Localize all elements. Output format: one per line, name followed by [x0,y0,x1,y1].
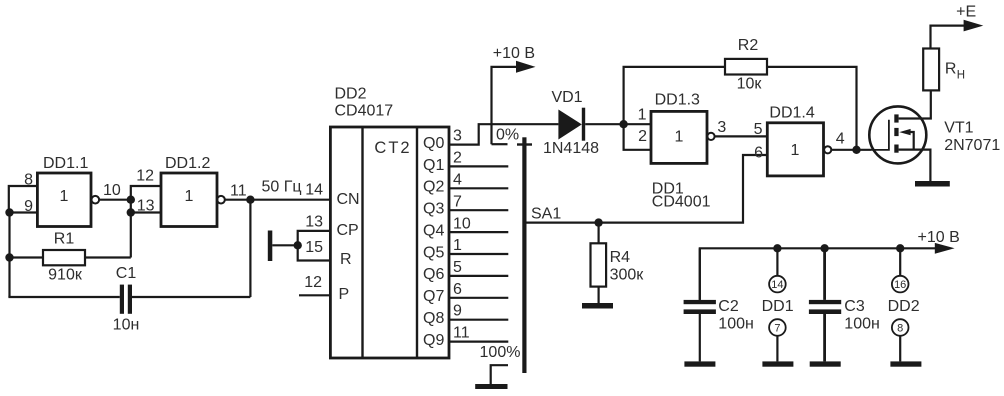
wire: Q4 tap [449,231,508,233]
svg-text:1N4148: 1N4148 [543,140,599,157]
svg-text:9: 9 [24,198,33,215]
wire: pin 2 wrap [624,124,651,150]
wire: DD1.1 input tie (pins 8,9) [9,186,38,213]
svg-text:1: 1 [185,188,194,205]
svg-text:VD1: VD1 [551,89,582,106]
svg-text:R: R [340,251,352,268]
svg-text:1: 1 [60,188,69,205]
svg-text:1: 1 [791,142,800,159]
wire: Q2 tap [449,187,508,189]
svg-text:14: 14 [771,279,783,291]
svg-text:15: 15 [305,239,323,256]
svg-text:9: 9 [453,303,462,320]
node: rail junction C3 [820,244,828,252]
svg-text:CN: CN [337,191,360,208]
wire: Q7 tap [449,297,508,299]
op-amp: logic gate DD1.1 [37,155,99,227]
diode VD1 [543,89,624,157]
svg-text:+E: +E [956,3,976,20]
node: CP/R junction [294,241,302,249]
svg-text:C2: C2 [718,298,739,315]
switch SA1 top tick [517,143,532,145]
power +E arrow [931,3,984,48]
wire: Q1 tap [449,165,508,167]
svg-text:8: 8 [24,172,33,189]
svg-text:Q4: Q4 [423,223,444,240]
wire: CP/R tie to ground [272,231,330,261]
power rail +10 V (bottom) [700,229,960,300]
svg-text:7: 7 [453,194,462,211]
svg-text:DD1.2: DD1.2 [165,155,210,172]
svg-text:300к: 300к [610,267,645,284]
svg-text:910к: 910к [48,267,83,284]
resistor R2 feedback [624,37,857,150]
wire: C1 right vertical up to output node [249,200,251,297]
counter U-DD2 CD4017 [330,86,449,358]
svg-text:12: 12 [136,168,154,185]
svg-text:3: 3 [453,128,462,145]
svg-text:100%: 100% [480,344,521,361]
svg-text:CP: CP [337,222,359,239]
wire: DD1.2 output to DD2 CN [225,199,331,201]
svg-text:DD1: DD1 [762,298,794,315]
svg-text:7: 7 [774,323,780,335]
svg-text:Q7: Q7 [423,288,444,305]
node: junction on pin13 line [127,208,135,216]
svg-text:8: 8 [897,323,903,335]
svg-text:10: 10 [453,216,471,233]
wire: Q3 tap [449,209,508,211]
svg-text:Q6: Q6 [423,266,444,283]
label DD1 CD4001 [652,180,711,210]
svg-text:C1: C1 [116,265,137,282]
wire: Q6 tap [449,275,508,277]
ground bar (VT1 source) [915,181,950,187]
node: DD1.1 pin9 junction [5,208,13,216]
svg-text:14: 14 [305,182,323,199]
svg-text:11: 11 [453,325,470,342]
svg-text:R1: R1 [54,231,75,248]
svg-text:50 Гц: 50 Гц [262,179,302,196]
capacitor C1 [10,265,251,334]
wire: feedback vertical (pins 12,13 tie) [131,186,161,258]
svg-text:SA1: SA1 [531,205,561,222]
svg-text:Q8: Q8 [423,310,444,327]
DD1 power pins [762,248,794,361]
svg-text:C3: C3 [844,298,865,315]
svg-text:100н: 100н [844,316,880,333]
svg-text:DD2: DD2 [335,86,367,103]
wire: Q9 tap [449,341,508,343]
ground bar (100%) [475,384,507,389]
svg-text:10к: 10к [737,76,763,93]
svg-text:1: 1 [675,129,684,146]
wire: 100% contact [491,365,508,384]
svg-text:+10 В: +10 В [493,45,535,62]
svg-text:2: 2 [638,128,647,145]
wire: left vertical to R1/C1 [8,213,10,298]
svg-text:Q1: Q1 [423,157,444,174]
wire: DD1.4 output to gate [831,149,871,151]
node: DD1.3 input junction [619,120,627,128]
node: C1 tap junction [246,196,254,204]
svg-text:10: 10 [103,182,121,199]
svg-text:R4: R4 [610,249,631,266]
wire: DD1.1 output to DD1.2 [99,199,131,201]
svg-text:11: 11 [230,182,247,199]
svg-text:Н: Н [957,69,965,81]
resistor R1 [10,231,131,284]
wire: Q0 output with jog up to VD1 line [449,124,558,144]
svg-text:CT2: CT2 [374,139,411,157]
wire: pin 12 stub (P) [299,294,330,296]
svg-text:2N7071: 2N7071 [944,137,1000,154]
svg-text:4: 4 [836,130,845,147]
switch SA1 bar [522,137,526,373]
wire: Q5 tap [449,253,508,255]
op-amp: logic gate DD1.2 [161,155,225,227]
node: rail junction DD2 [896,244,904,252]
svg-text:Q9: Q9 [423,332,444,349]
svg-text:DD1.4: DD1.4 [769,105,814,122]
svg-text:5: 5 [754,121,763,138]
svg-text:R: R [945,61,957,78]
svg-text:6: 6 [754,144,763,161]
node: rail junction DD1 [773,244,781,252]
capacitor C3 [809,248,880,361]
ground bar (sideways) [268,231,273,262]
svg-text:100н: 100н [718,316,754,333]
node: junction on output line [127,196,135,204]
wire: Q8 tap [449,319,508,321]
transistor VT1 2N7071 [869,90,1000,181]
resistor RH [923,49,965,91]
svg-text:16: 16 [894,279,906,291]
ground bar (DD2) [890,361,921,366]
node: R1 left junction [5,253,13,261]
ground bar (DD1) [762,361,793,366]
svg-text:3: 3 [717,119,726,136]
DD2 power pins [888,248,920,361]
svg-text:4: 4 [453,172,462,189]
svg-text:0%: 0% [496,127,519,144]
svg-text:Q2: Q2 [423,179,444,196]
svg-text:VT1: VT1 [944,119,973,136]
ground bar (C2) [684,361,715,366]
ground bar (C3) [810,361,841,366]
node: gate junction [852,146,860,154]
svg-text:R2: R2 [738,37,759,54]
svg-text:5: 5 [453,259,462,276]
svg-text:12: 12 [304,274,322,291]
svg-text:Q0: Q0 [423,135,444,152]
svg-text:+10 В: +10 В [918,229,960,246]
wire: input node to pin 1 [624,123,651,125]
svg-text:Q3: Q3 [423,201,444,218]
svg-text:DD1.1: DD1.1 [43,155,88,172]
capacitor C2 [684,248,754,361]
op-amp: logic gate DD1.4 [767,105,831,176]
svg-text:10н: 10н [113,317,140,334]
svg-text:DD1.3: DD1.3 [655,92,700,109]
svg-text:13: 13 [305,214,323,231]
svg-text:P: P [339,286,350,303]
svg-text:6: 6 [453,281,462,298]
op-amp: logic gate DD1.3 [651,92,715,164]
svg-text:1: 1 [638,107,647,124]
svg-text:Q5: Q5 [423,245,444,262]
svg-text:2: 2 [453,150,462,167]
svg-text:1: 1 [453,237,462,254]
wire: 0% contact [492,143,508,145]
power +10 V arrow (top) [492,45,536,144]
wire: pin 13 stub [131,211,161,213]
node: R4 junction [594,218,602,226]
svg-text:CD4017: CD4017 [335,102,394,119]
wire: SA1 wiper to DD1.4 pin 6 [527,155,768,223]
svg-text:13: 13 [137,198,155,215]
ground bar (R4) [582,303,613,309]
resistor R4 [591,223,645,303]
svg-text:DD2: DD2 [888,298,920,315]
wire: DD1.3 output to DD1.4 pin 5 [715,135,768,137]
svg-text:CD4001: CD4001 [652,194,711,211]
